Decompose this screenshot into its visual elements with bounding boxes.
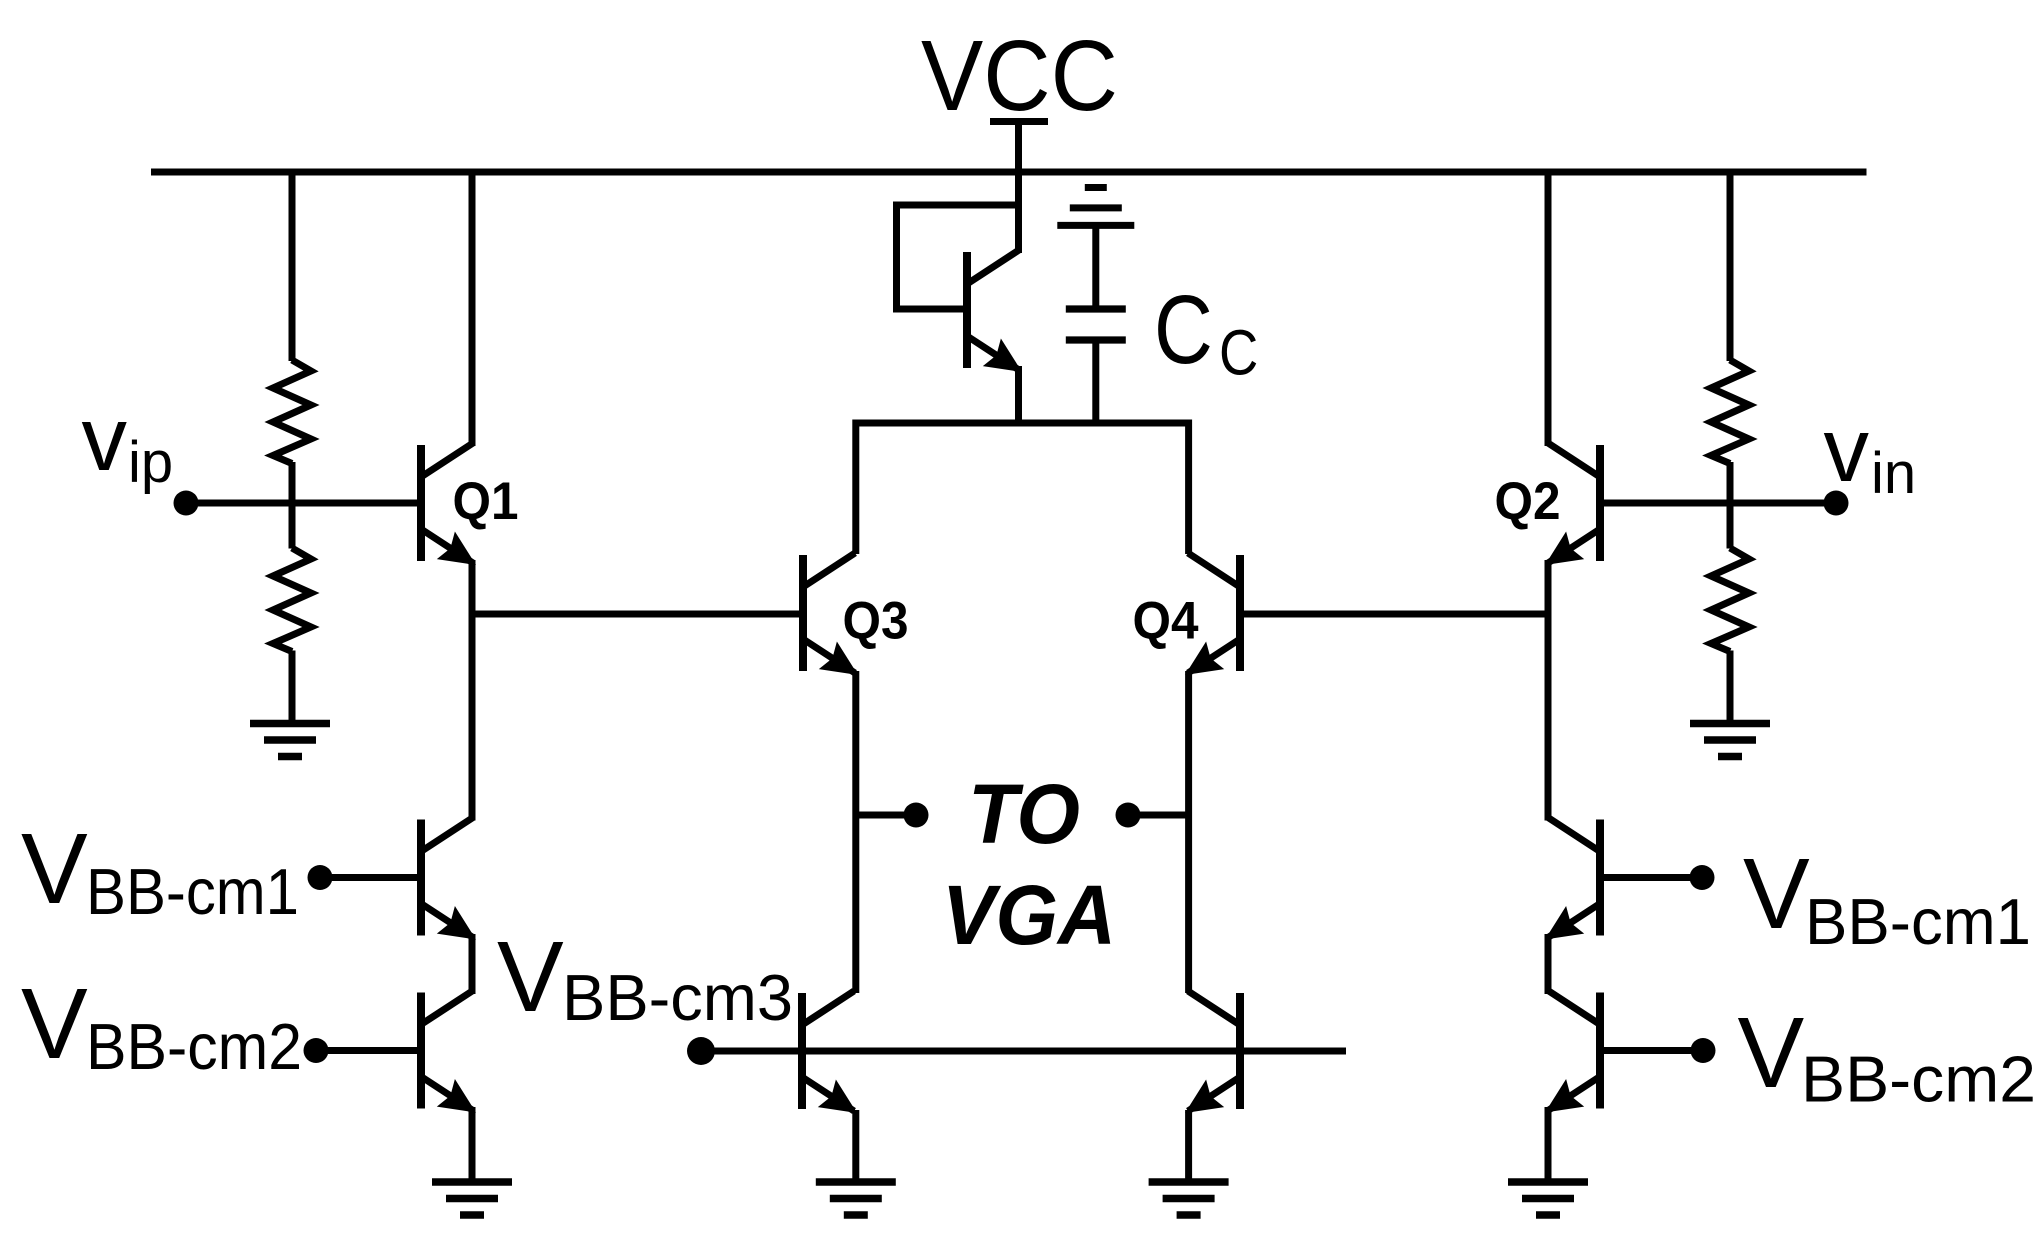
svg-text:C: C xyxy=(1219,316,1258,388)
svg-text:V: V xyxy=(1743,838,1810,950)
svg-text:V: V xyxy=(21,968,88,1080)
svg-text:ip: ip xyxy=(128,430,173,495)
svg-text:C: C xyxy=(1154,275,1213,383)
svg-text:V: V xyxy=(21,813,88,925)
svg-text:BB-cm3: BB-cm3 xyxy=(562,961,793,1034)
svg-text:Q4: Q4 xyxy=(1133,592,1199,651)
svg-text:Q2: Q2 xyxy=(1495,472,1561,531)
svg-text:BB-cm2: BB-cm2 xyxy=(1801,1043,2036,1116)
svg-text:Q3: Q3 xyxy=(843,592,909,651)
svg-text:V: V xyxy=(497,921,564,1033)
svg-text:in: in xyxy=(1871,441,1916,506)
svg-text:TO: TO xyxy=(968,767,1080,861)
svg-text:v: v xyxy=(82,389,128,490)
svg-text:BB-cm1: BB-cm1 xyxy=(1805,885,2031,958)
svg-text:BB-cm2: BB-cm2 xyxy=(86,1010,302,1083)
svg-text:VGA: VGA xyxy=(942,868,1116,962)
svg-text:BB-cm1: BB-cm1 xyxy=(86,855,299,928)
svg-text:Q1: Q1 xyxy=(453,472,519,531)
svg-text:V: V xyxy=(1738,997,1805,1109)
svg-text:VCC: VCC xyxy=(921,20,1118,132)
svg-text:v: v xyxy=(1824,400,1870,501)
